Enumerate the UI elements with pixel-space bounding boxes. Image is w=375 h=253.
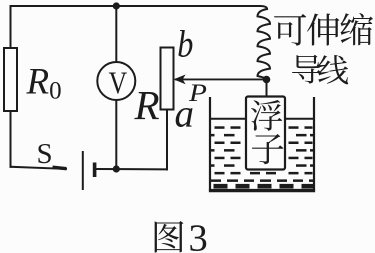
label 线: [318, 55, 348, 84]
battery long plate: [82, 151, 84, 190]
label 导 (wire): [292, 55, 321, 84]
tank bottom blocks: [214, 184, 314, 189]
label 浮 (float): [251, 100, 282, 131]
caption 图: [155, 221, 184, 252]
container tank: [209, 97, 315, 191]
label 子: [252, 134, 283, 164]
wire bottom left to switch: [11, 167, 67, 169]
label 可 (stretchable): [274, 14, 306, 46]
rheostat R box: [161, 48, 174, 110]
svg-text:R: R: [134, 82, 160, 128]
wire battery to rheostat bottom: [96, 168, 167, 170]
junction dot top: [113, 2, 120, 9]
svg-text:a: a: [175, 93, 195, 136]
wire left rail lower: [10, 111, 12, 167]
resistor R0 box: [4, 48, 17, 111]
switch S blade: [53, 167, 67, 169]
svg-text:S: S: [37, 138, 53, 170]
wire top rail: [11, 6, 261, 48]
wiper arrowhead P: [174, 75, 186, 85]
wire rheostat bottom terminal: [166, 110, 168, 170]
label 缩: [341, 13, 374, 45]
junction node right: [263, 76, 271, 84]
svg-text:b: b: [177, 23, 193, 65]
voltmeter U1 circle: [97, 62, 135, 100]
wire junction to float: [266, 80, 268, 98]
liquid surface: [210, 118, 314, 120]
wire voltmeter branch lower: [115, 100, 117, 169]
float box: [246, 97, 285, 170]
label 伸: [307, 13, 339, 45]
wire voltmeter branch upper: [115, 6, 117, 62]
battery short plate: [93, 163, 97, 178]
wire coil corner: [260, 6, 267, 9]
svg-text:3: 3: [189, 217, 208, 253]
wire wiper to junction: [176, 78, 267, 80]
svg-text:V: V: [109, 66, 128, 101]
stretchable coil wire: [258, 9, 271, 79]
junction dot bottom: [113, 165, 120, 172]
liquid dashes: [211, 126, 313, 182]
